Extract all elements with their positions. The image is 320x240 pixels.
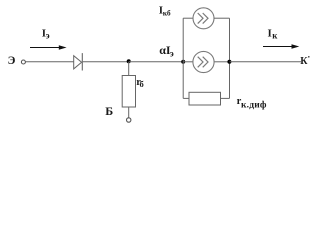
svg-text:э: э [46,31,50,41]
resistor rк.диф [189,92,221,105]
wire stub from current source αIэ to right node [214,61,230,63]
svg-text:к: к [272,31,278,41]
svg-text:I: I [268,28,272,40]
junction dot at left node [181,60,185,64]
resistor rб [122,76,135,108]
left vertical wire of collector network [182,18,184,98]
current source value label αIэ [159,43,174,59]
wire from base node to left node of collector network [129,61,184,63]
node Э (emitter terminal label) [8,55,16,67]
bottom-right wire stub from resistor rк.диф [221,97,230,99]
bottom-left wire stub to resistor rк.диф [183,97,189,99]
wire stub top-right from current source Iкб [214,17,230,19]
svg-text:б: б [140,79,144,89]
svg-text:кб: кб [163,9,171,18]
svg-text:э: э [170,49,174,59]
current label Iк [268,28,279,41]
svg-text:Б: Б [105,104,113,118]
node Б (base terminal label) [105,104,113,118]
wire stub from left node to current source αIэ [183,61,193,63]
diode VD (emitter junction) [74,53,83,70]
current label Iэ [42,28,50,41]
wire stub top-left to current source Iкб [183,17,193,19]
value label rк.диф [237,96,267,110]
junction dot at top of rб [127,59,131,63]
wire down from junction to resistor rб [128,62,130,76]
terminal circle at emitter Э [21,60,25,64]
svg-text:к.диф: к.диф [241,99,267,110]
wire from rб to base terminal [128,107,130,118]
current source Iкб (top, reverse collector current) [193,8,214,29]
arrow for current Iк [263,44,299,49]
terminal circle at base Б [127,118,131,122]
junction dot at right node [227,60,231,64]
node К (collector terminal label) [300,56,309,67]
wire from emitter terminal to diode [26,61,74,63]
current label Iкб [159,4,171,17]
wire from diode to base node [83,61,129,63]
svg-text:К: К [300,56,308,67]
svg-text:Э: Э [8,55,16,67]
arrow for current Iэ [30,45,67,49]
right vertical wire of collector network [229,18,231,98]
value label rб [136,77,143,89]
current source αIэ (middle) [193,51,214,72]
wire from right node to collector terminal [230,61,302,63]
